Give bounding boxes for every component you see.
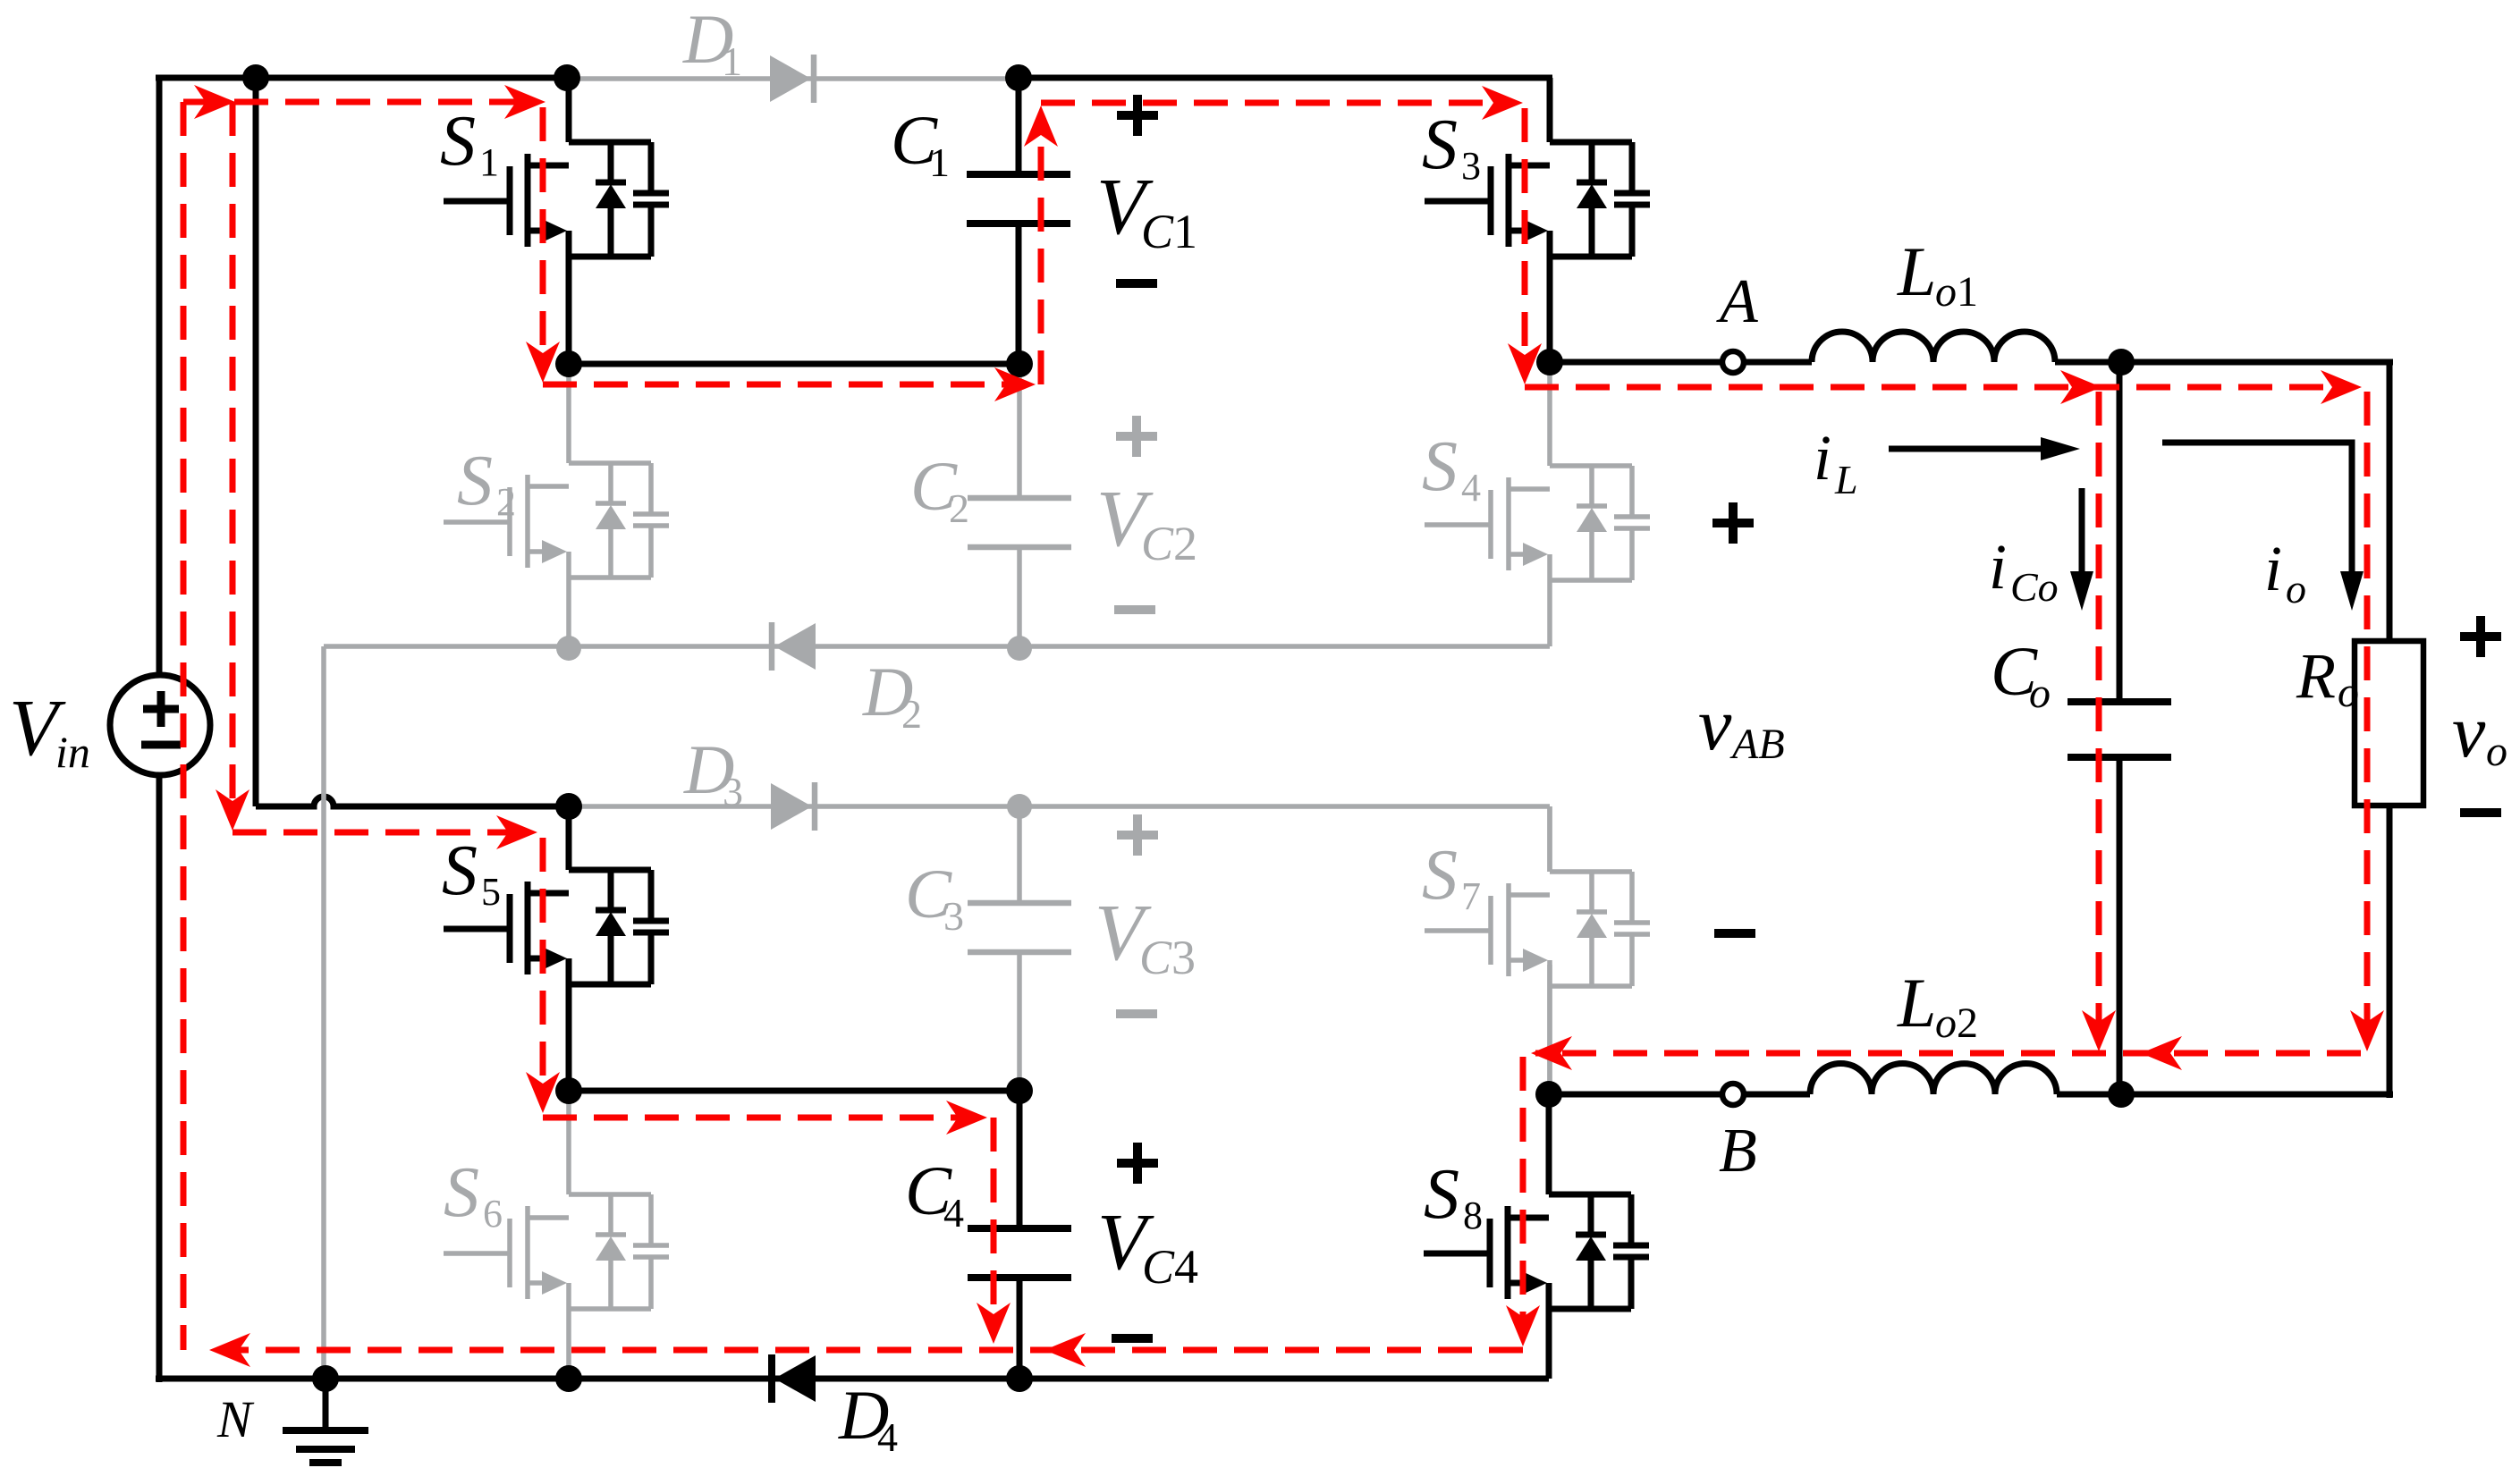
junction node (1140,1542) [1006,1365,1033,1392]
svg-text:C2: C2 [1141,517,1197,570]
current path arrow right before C1 [994,367,1036,401]
current path: up through C1 [1038,134,1044,384]
current path arrow up at C1 top [1024,105,1058,147]
label D3 [683,730,743,814]
label D1 [682,0,742,84]
label D4 [838,1376,898,1460]
wire: gray top segment with D1 (S1 drain node to C1 node) [567,76,1019,81]
wire: bottom right rail (Ro corner to Lo2) [2057,1092,2393,1098]
inductor Lo1 [1812,332,2055,362]
svg-text:S: S [1422,427,1458,506]
svg-text:3: 3 [943,893,964,939]
transistor S3 (MOSFET with body diode and snubber cap) [1422,78,1650,362]
transistor S2 (MOSFET, inactive gray) [444,364,669,648]
wire: node A row (S3 source to A) [1550,359,1722,366]
current path arrow right before Co [2060,370,2101,404]
transistor S7 (MOSFET, inactive gray) [1422,806,1650,1094]
wire: left edge upper (Vin+ to top rail) [156,78,163,675]
svg-text:5: 5 [481,870,501,914]
current path arrow down after S8 [1506,1305,1540,1346]
current path: down through C4 [991,1118,997,1330]
junction node (2372,405) [2108,349,2135,375]
svg-text:S: S [1424,1155,1459,1234]
diode D3 (gray) [771,782,815,831]
transistor S4 (MOSFET, inactive gray) [1422,362,1650,580]
current path arrow left near C4 [1044,1333,1086,1367]
wire: gray D2 row (flying bus, S2/S4 sources and C2 bottom) [324,644,1550,649]
junction node gray (1140,725) [1007,636,1032,661]
diode D1 (gray) [770,55,814,103]
voltage source Vin [110,675,210,775]
current path: S1 rail horizontal to C1 [543,382,1023,388]
current path: S5 rail horizontal to C4 [543,1115,975,1121]
junction node (636,1542) [555,1365,582,1392]
svg-text:2: 2 [949,485,969,531]
diode D2 (gray) [772,622,816,671]
junction node (1139,87) [1005,64,1032,91]
svg-text:S: S [1422,105,1458,184]
current path arrow down at Ro bottom [2350,1010,2384,1051]
wire: vertical rail x=286 (top rail to lower bridge feed) [253,78,259,806]
current arrow iCo [2070,488,2093,611]
label Vin [9,684,90,777]
transistor S8 (MOSFET with body diode and snubber cap) [1424,1094,1649,1379]
current path: down along Ro [2364,392,2371,1039]
current path arrow right before S3 [1482,86,1523,120]
current path: inner left vertical x=260 [230,102,236,809]
svg-text:in: in [55,727,90,777]
svg-text:v: v [1698,683,1732,766]
current path: node A row horizontal to output [1525,384,2349,391]
wire: bottom rail (N ground bus) [156,1376,1549,1382]
label Ro [2296,640,2359,716]
node B terminal [1722,1084,1744,1105]
current path: down along Co [2096,392,2102,1039]
wire: C4 bottom lead [1017,1278,1023,1379]
junction node (2372,1224) [2108,1081,2135,1108]
wire: top rail right segment (C1 to S3) [1019,75,1552,81]
wire: gray C3 top lead [1017,806,1022,903]
svg-text:2: 2 [496,480,516,524]
svg-text:1: 1 [929,139,950,185]
current path: bottom output row back to B [1535,1050,2361,1057]
wire: Ro branch upper [2387,359,2393,641]
current path: through S5 vertical [540,838,546,1101]
junction node (636,407) [555,350,582,377]
wire: gray C3 bottom lead [1017,952,1022,1091]
wire: lower bridge feed row with hop over gray bus [256,797,567,806]
label C2 [910,447,969,531]
wire: C4 top lead [1017,1091,1023,1228]
junction node (636,1220) [555,1077,582,1104]
svg-text:C3: C3 [1139,931,1196,984]
svg-text:o: o [2286,566,2306,612]
label VC1 with polarity [1096,95,1197,283]
current path arrow left toward S8 [1531,1036,1572,1070]
svg-text:A: A [1716,267,1758,336]
svg-text:4: 4 [877,1414,898,1460]
svg-text:v: v [2452,690,2486,773]
wire: left edge lower (Vin- to bottom rail) [156,775,163,1382]
junction node (1140,1220) [1006,1077,1033,1104]
transistor S1 (MOSFET with body diode and snubber cap) [440,78,669,364]
label iL [1814,422,1858,502]
svg-text:o: o [2029,670,2051,717]
junction node (636,902) [555,793,582,820]
label C3 [905,855,964,939]
svg-text:L: L [1897,232,1936,310]
svg-text:4: 4 [943,1190,964,1236]
svg-text:S: S [444,1153,479,1232]
current path: through S3 vertical [1522,108,1528,372]
svg-text:i: i [1814,422,1831,494]
label io [2264,533,2306,612]
svg-text:3: 3 [1461,144,1481,188]
current path: left loop vertical x=205 [181,102,187,1350]
current path arrow down after S1 [526,342,560,383]
svg-text:4: 4 [1461,466,1481,510]
diode D4 [772,1354,816,1403]
svg-text:2: 2 [901,691,922,737]
svg-text:S: S [440,102,476,181]
svg-text:N: N [216,1390,255,1448]
wire: node A to Lo1 [1744,359,1812,366]
junction node gray (1140,902) [1007,794,1032,819]
svg-text:1: 1 [722,38,742,84]
current path arrow right before Ro corner [2321,370,2362,404]
ground symbol at N [283,1379,368,1463]
current path arrow down at Co bottom [2082,1010,2116,1051]
label vo with polarity [2452,616,2507,813]
junction node (1733,405) [1536,349,1563,375]
wire: gray S7 source lead to node B [1547,965,1552,1094]
wire: gray C2 bottom lead [1017,547,1022,648]
wire: node B to S7/S8 junction [1549,1092,1722,1098]
current path: through S1 vertical [540,107,546,371]
svg-text:C4: C4 [1142,1240,1198,1294]
svg-text:Co: Co [2010,564,2059,610]
transistor S6 (MOSFET, inactive gray) [444,1091,669,1379]
wire: Lo1 to Co junction and Ro corner [2055,359,2393,366]
current path arrow right before S1 [504,85,545,119]
wire: C1 bottom lead [1016,224,1022,364]
svg-text:o: o [2486,728,2507,775]
wire: Ro branch lower [2387,806,2393,1098]
capacitor C2 (gray) [968,498,1071,547]
svg-text:S: S [442,831,478,910]
transistor S5 (MOSFET with body diode and snubber cap) [442,806,669,1091]
current path: through S8 vertical [1520,1057,1526,1334]
label iCo [1989,531,2059,610]
wire: top rail left segment [156,75,567,81]
wire: C1 top lead [1016,78,1022,174]
svg-text:1: 1 [479,140,499,184]
svg-text:7: 7 [1461,874,1481,918]
capacitor C3 (gray) [968,903,1071,952]
current arrow io [2162,443,2364,611]
current path arrow down after S3 [1508,343,1542,384]
svg-text:i: i [1989,531,2007,603]
capacitor C1 [967,174,1070,224]
svg-text:8: 8 [1463,1194,1483,1237]
label D2 [862,653,922,737]
svg-text:i: i [2264,533,2282,604]
wire: Co top lead [2117,362,2123,702]
current path arrow right before C4 [946,1101,987,1135]
wire: Co bottom lead [2117,757,2123,1094]
current path arrow down into lower feed [216,789,249,831]
node A terminal [1722,351,1744,373]
current path: top horizontal C1 to S3 [1041,100,1511,106]
label C1 [891,101,950,185]
svg-text:S: S [457,442,493,520]
current path arrow left at bottom left [209,1333,250,1367]
label Co [1991,632,2051,717]
current path arrow right before S5 [496,815,537,849]
svg-text:S: S [1422,836,1458,915]
svg-text:6: 6 [483,1192,503,1236]
current arrow iL [1889,437,2080,460]
junction node (634,87) [554,64,580,91]
svg-text:3: 3 [723,769,743,814]
wire: gray C2 top lead [1017,364,1022,498]
svg-text:L: L [1834,457,1858,502]
wire: gray vertical bus x=362 (D2 row to N) [321,646,326,1379]
label C4 [905,1152,964,1236]
wire: Lo2 to node B [1744,1092,1810,1098]
junction node (364,1542) [312,1365,339,1392]
svg-text:AB: AB [1729,721,1785,768]
svg-text:R: R [2296,640,2336,712]
capacitor C4 [968,1228,1071,1278]
svg-text:B: B [1719,1117,1757,1185]
wire: gray S4 source lead down to D2 row [1547,555,1552,646]
inductor Lo2 [1810,1064,2057,1095]
label VC3 with polarity [1095,814,1196,1014]
junction node gray (636,725) [556,636,581,661]
capacitor Co [2068,702,2171,757]
junction node (286,87) [242,64,269,91]
wire: S1 source rail to C1 bottom [569,361,1019,367]
junction node (1140,407) [1006,350,1033,377]
wire: gray D3 row (S5 drain node to S7 drain) [569,804,1550,809]
label VC2 with polarity [1096,416,1197,610]
svg-text:L: L [1897,964,1936,1042]
svg-text:C1: C1 [1141,205,1197,258]
current path arrow left toward Co bottom [2141,1036,2182,1070]
svg-text:o1: o1 [1935,268,1978,316]
svg-text:o2: o2 [1935,1000,1978,1047]
resistor Ro [2355,641,2423,806]
label VC4 with polarity [1097,1143,1198,1338]
wire: gray S7 drain lead [1547,806,1552,872]
current path: top horizontal to S1 [183,99,537,105]
current path: lower feed row to S5 [233,830,528,836]
wire: S5 source rail to C4 top [569,1088,1019,1094]
current path arrow down after S5 [526,1072,560,1113]
label Lo2 [1897,964,1978,1047]
current path: bottom rail row back to N [222,1347,1523,1354]
svg-text:o: o [2338,669,2359,716]
junction node (1732,1224) [1535,1081,1562,1108]
current path arrow right at top left [194,85,235,119]
label vAB with polarity [1698,502,1785,933]
current path arrow down at C4 bottom [977,1303,1011,1344]
label Lo1 [1897,232,1978,316]
